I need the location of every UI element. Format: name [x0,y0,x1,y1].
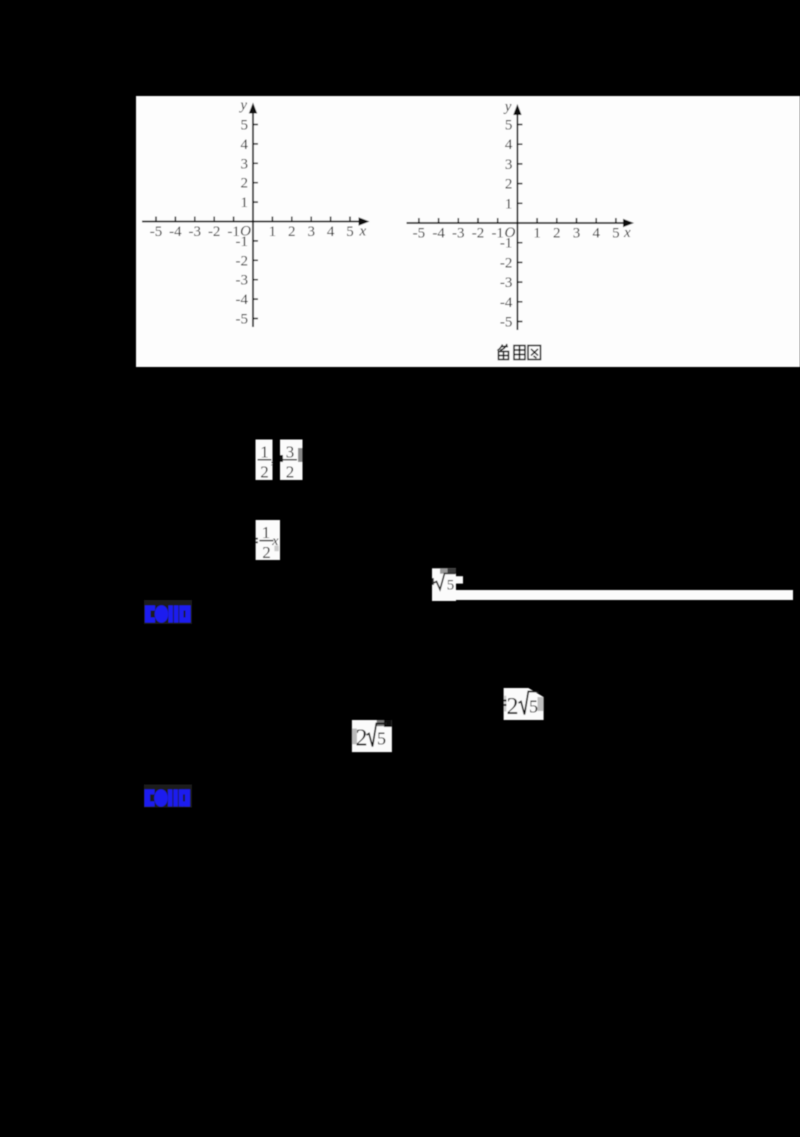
fraction 1/2 second patch [256,520,280,562]
right grid y tick 3 [517,163,522,165]
fraction 3/2 patch [280,440,303,482]
svg-text:3: 3 [307,224,315,240]
caption 备用图 [498,344,541,360]
svg-text:-5: -5 [500,315,513,331]
left grid x tick -4 [174,217,176,222]
right grid x tick -5 [418,218,420,223]
svg-text:1: 1 [269,224,277,240]
left grid y tick -4 [253,298,258,300]
svg-text:-3: -3 [236,273,249,289]
right grid x tick 4 [595,218,597,223]
svg-text:-4: -4 [236,292,249,308]
right grid x tick 5 [615,218,617,223]
svg-text:O: O [505,225,516,241]
left grid y tick -2 [253,259,258,261]
svg-text:2: 2 [356,726,368,752]
left grid y tick -3 [253,279,258,281]
svg-text:2: 2 [288,224,296,240]
left grid x tick -5 [155,217,157,222]
svg-text:2: 2 [262,543,271,562]
sqrt(5) patch and underline strip [432,568,793,601]
svg-text:5: 5 [346,224,354,240]
svg-text:y: y [238,98,247,114]
svg-text:,: , [271,450,275,467]
svg-text:-5: -5 [413,226,426,242]
svg-text:-3: -3 [452,226,465,242]
right grid y tick -4 [517,301,522,303]
svg-text:2: 2 [505,177,513,193]
left grid y tick 4 [253,143,258,145]
svg-text:-2: -2 [472,226,485,242]
right grid x tick -2 [477,218,479,223]
svg-text:1: 1 [262,523,271,542]
right grid x tick -3 [457,218,459,223]
svg-text:y: y [503,99,512,115]
right grid x tick 3 [576,218,578,223]
left grid x tick 4 [330,217,332,222]
svg-text:5: 5 [612,226,620,242]
svg-text:3: 3 [573,226,581,242]
right grid y tick -3 [517,281,522,283]
svg-text:-4: -4 [169,224,182,240]
blue tag 1 [144,600,192,624]
svg-text:4: 4 [505,137,513,153]
svg-text:5: 5 [241,118,249,134]
svg-text:2: 2 [507,694,519,720]
svg-text:2: 2 [241,176,249,192]
left grid x tick 3 [310,217,312,222]
svg-text:3: 3 [286,443,295,462]
left grid x tick -1 [233,217,235,222]
left grid y tick 3 [253,162,258,164]
left grid y tick -5 [253,318,258,320]
2*sqrt(5) patch upper [504,688,544,720]
right grid y tick 2 [517,183,522,185]
right grid y tick 1 [517,202,522,204]
right grid y-axis [513,104,521,330]
left grid y tick -1 [253,240,258,242]
right grid y tick -2 [517,261,522,263]
left grid x-axis [142,217,370,225]
left grid x tick 5 [349,217,351,222]
right grid y tick 4 [517,143,522,145]
left grid y tick 1 [253,201,258,203]
svg-text:5: 5 [529,697,538,717]
left grid y tick 2 [253,182,258,184]
right grid x tick 2 [556,218,558,223]
svg-text:-3: -3 [189,224,202,240]
right grid x tick -1 [497,218,499,223]
svg-text:5: 5 [505,118,513,134]
right grid x-axis [407,219,635,227]
svg-text:2: 2 [553,226,561,242]
2*sqrt(5) patch lower [352,720,392,752]
svg-text:3: 3 [241,156,249,172]
right grid x tick 1 [536,218,538,223]
svg-text:4: 4 [327,224,335,240]
svg-text:3: 3 [505,157,513,173]
left grid x tick 2 [291,217,293,222]
svg-text:2: 2 [260,463,269,482]
left grid x tick 1 [271,217,273,222]
svg-text:x: x [359,224,367,240]
right grid y tick 5 [517,124,522,126]
right grid y tick -1 [517,242,522,244]
svg-text:5: 5 [377,729,386,749]
svg-text:5: 5 [447,578,455,594]
white figure panel [136,96,800,367]
svg-text:x: x [271,534,279,549]
svg-text:-5: -5 [150,224,163,240]
svg-text:4: 4 [241,137,249,153]
svg-text:-2: -2 [208,224,221,240]
svg-text:-4: -4 [500,295,513,311]
svg-text:x: x [623,225,631,241]
right grid y tick -5 [517,321,522,323]
svg-text:-2: -2 [236,253,249,269]
left grid x tick -3 [194,217,196,222]
right grid x tick -4 [438,218,440,223]
fraction 1/2 patch [256,440,273,482]
svg-text:2: 2 [286,463,295,482]
svg-text:-2: -2 [500,255,513,271]
svg-text:1: 1 [260,443,269,462]
svg-text:-4: -4 [432,226,445,242]
svg-text:4: 4 [592,226,600,242]
svg-text:1: 1 [241,195,249,211]
svg-text:-3: -3 [500,275,513,291]
svg-text:O: O [240,224,251,240]
svg-text:-5: -5 [236,312,249,328]
left grid y-axis [249,103,257,328]
svg-text:1: 1 [505,196,513,212]
left grid y tick 5 [253,124,258,126]
left grid x tick -2 [213,217,215,222]
svg-text:1: 1 [533,226,541,242]
blue tag 2 [144,784,192,807]
